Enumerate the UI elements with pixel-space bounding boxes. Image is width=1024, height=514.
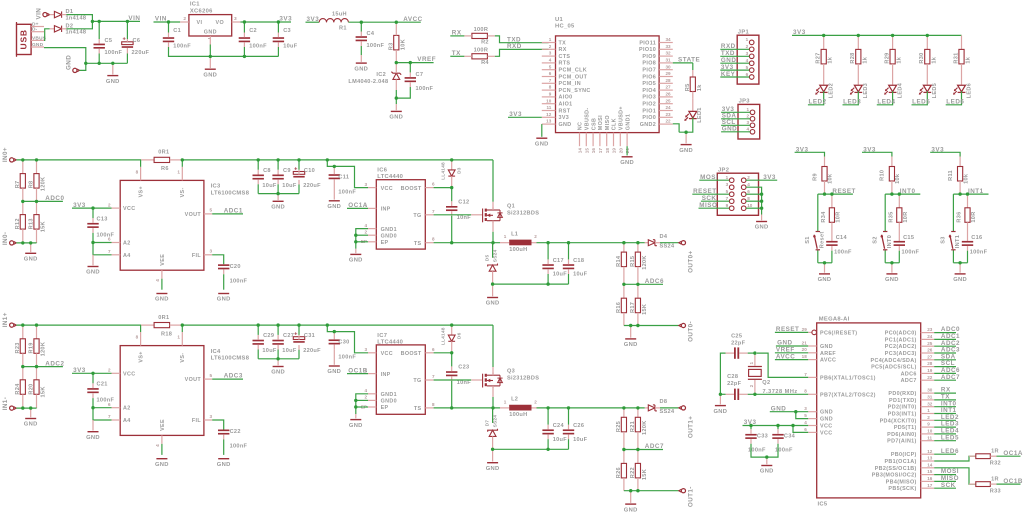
svg-text:PC5(ADC5/SCL): PC5(ADC5/SCL) [871,365,917,371]
IC3 pin 2 VCC [112,207,121,209]
wire cap top [568,408,570,425]
gnd stub [492,449,494,461]
svg-text:IN1-: IN1- [2,397,9,411]
junction [546,406,549,409]
gnd stub [630,491,632,503]
svg-text:1R: 1R [991,448,999,454]
svg-text:2: 2 [364,395,367,400]
svg-text:10uF: 10uF [573,272,588,278]
svg-text:GND: GND [820,344,833,350]
wire JP2 gnd10 [746,207,762,209]
wire VCC4 [743,425,809,427]
svg-text:10uF: 10uF [282,183,297,189]
svg-text:VCC: VCC [123,206,135,212]
resistor R28 [856,35,861,64]
wire sw top [817,194,819,231]
junction [491,406,494,409]
drain stub [492,202,494,210]
IC5 pin 11 PD7(AIN1) [921,440,935,442]
svg-text:1k: 1k [931,56,937,63]
wire ADC out [212,213,243,215]
svg-text:8: 8 [432,237,435,242]
svg-text:8: 8 [432,402,435,407]
svg-text:7: 7 [432,374,435,379]
svg-text:C18: C18 [573,258,584,264]
svg-text:GND: GND [271,205,285,211]
ground IC4 VEE [155,459,169,468]
svg-text:PD7(AIN1): PD7(AIN1) [887,439,917,445]
wire VCC to cap [92,208,94,218]
wire gnd node [818,262,832,264]
junction [822,34,825,37]
svg-text:PC1(ADC1): PC1(ADC1) [885,337,917,343]
junction [622,448,625,451]
svg-text:13: 13 [927,456,933,461]
svg-text:6: 6 [108,237,111,242]
svg-text:11: 11 [546,105,551,110]
wire SCL [934,366,956,368]
wire C25 to xtal [748,352,755,354]
wire RXD [495,49,549,56]
svg-text:6: 6 [549,71,552,76]
gnd stub [492,284,494,296]
U1 pin 34 PIO11 [659,42,673,44]
wire JP2 MOSI [699,179,729,181]
svg-text:IC5: IC5 [818,501,828,507]
JP2 pin 9 [729,206,734,211]
IC7 pin 4 GND1 [368,393,376,395]
svg-text:12: 12 [927,449,933,454]
svg-text:12: 12 [546,112,552,117]
svg-text:0R1: 0R1 [158,315,169,321]
svg-text:R23: R23 [15,342,21,353]
wire LED2 [808,91,824,104]
JP3 pin 4 [750,130,755,135]
svg-text:EP: EP [381,405,389,411]
IC5 pin 7 PB6(XTAL1/TOSC1) [808,376,817,378]
svg-text:9: 9 [726,203,729,208]
svg-text:D7: D7 [485,420,491,427]
svg-text:20: 20 [618,148,623,154]
junction [35,200,38,203]
wire source [492,397,494,408]
svg-text:C26: C26 [573,423,584,429]
svg-text:R27: R27 [816,52,822,63]
wire IC1 gnd rail [169,47,279,56]
U1 pin 10 AIO1 [542,103,556,105]
JP2 pin 3 [729,185,734,190]
svg-text:1: 1 [504,234,507,239]
svg-text:GND: GND [722,126,738,133]
resistor R3 [394,22,399,62]
wire U1 gnd21 [626,146,628,155]
svg-text:IN1+: IN1+ [2,312,9,327]
wire STATE to R5 [692,63,694,70]
junction [297,158,300,161]
svg-text:S3: S3 [941,236,947,243]
IC3 pin 3 FIL [204,254,212,256]
junction [760,207,763,210]
wire LED4 [877,91,893,104]
wire VS+ [140,160,142,167]
resistor R12 [20,201,25,243]
crystal Q2 7.3728MHz [748,353,762,394]
IC7 pin 3 VCC [368,352,376,354]
junction [636,489,639,492]
wire out- rail [624,490,679,492]
svg-text:C14: C14 [836,235,848,241]
svg-text:GND: GND [86,270,100,276]
LED LED4 [884,64,896,95]
svg-text:100nF: 100nF [970,250,988,256]
junction [567,406,570,409]
IC6 pin 1 INP [368,207,376,209]
svg-text:R24: R24 [15,383,21,395]
svg-text:1n4148: 1n4148 [66,15,87,21]
svg-text:GND: GND [559,122,572,128]
svg-text:10k: 10k [963,173,969,184]
wire TX [450,55,464,57]
USB pin D+ [31,26,44,28]
wire cap bot [298,350,300,359]
svg-text:VCC: VCC [123,371,135,377]
wire GND3 [770,411,808,413]
svg-text:PC0(ADC0): PC0(ADC0) [885,331,917,337]
svg-text:32: 32 [666,51,672,56]
U1 pin 16 CSB [592,133,594,147]
capacitor C13 [87,218,98,233]
svg-text:OUT1+: OUT1+ [688,416,695,438]
junction [276,192,279,195]
svg-text:JP1: JP1 [738,29,750,35]
svg-text:IN0-: IN0- [2,232,9,246]
IC4 pin 3 FIL [204,419,212,421]
svg-text:Si2312BDS: Si2312BDS [507,376,539,382]
junction [753,393,756,396]
wire VREF IC5 [775,352,808,354]
svg-text:PIO11: PIO11 [639,40,656,46]
JP1 pin 3 [749,54,754,59]
IC5 pin 14 PB2(SS/OC1B) [921,467,935,469]
junction [791,424,794,427]
svg-text:LED6: LED6 [941,448,959,455]
wire ADC7 [934,379,956,381]
wire SW node [434,242,500,244]
resistor R32 1R [969,454,997,459]
svg-text:GND: GND [486,301,500,307]
svg-text:C22: C22 [230,429,241,435]
svg-text:LED3: LED3 [843,98,861,105]
junction [21,241,24,244]
junction [276,158,279,161]
gnd stub [360,55,362,62]
gate stub [471,379,482,381]
wire VCC to cap [92,373,94,383]
svg-text:15K: 15K [642,469,648,480]
svg-text:R2: R2 [481,39,489,45]
wire ADC2 [934,345,956,347]
gnd stub [30,408,32,417]
svg-text:1: 1 [177,169,180,174]
wire cap bot [257,350,259,359]
U1 pin 24 PIO1 [659,110,673,112]
svg-text:C27: C27 [283,333,294,339]
svg-text:C24: C24 [553,423,565,429]
gnd stub [333,349,335,365]
junction [257,323,260,326]
svg-text:2: 2 [534,234,537,239]
svg-text:A2: A2 [123,241,131,247]
junction [753,351,756,354]
junction [333,330,336,333]
resistor R36 [965,194,970,241]
U1 pin 28 PIO5 [659,82,673,84]
wire VS- [181,160,183,167]
svg-text:PIO10: PIO10 [639,47,656,53]
svg-text:GND: GND [349,258,363,264]
U1 pin 18 MISO [606,133,608,147]
wire cap to sw [451,381,453,408]
IC4 pin 2 VCC [112,372,121,374]
wire RX [934,392,956,394]
wire LED3 [843,91,859,104]
svg-text:4: 4 [549,58,552,63]
wire cap bot [568,439,570,449]
pin IN1- [10,406,14,410]
svg-text:100nF: 100nF [230,278,248,284]
wire ep [356,406,368,408]
svg-text:9: 9 [927,422,930,427]
junction [29,406,32,409]
IC6 pin 3 VCC [368,187,376,189]
svg-text:C33: C33 [757,433,768,439]
svg-text:VBUSD+: VBUSD+ [619,106,625,130]
svg-text:GND: GND [271,370,285,376]
svg-text:GND: GND [624,342,638,348]
svg-text:IC3: IC3 [211,184,221,190]
capacitor C4 [356,32,367,47]
wire cap bot [298,185,300,194]
resistor R27 [821,35,826,64]
svg-text:PCM_CLK: PCM_CLK [559,68,588,74]
svg-text:IN0+: IN0+ [2,147,9,162]
svg-text:LED5: LED5 [941,434,959,441]
capacitor C34 [772,429,783,444]
svg-text:7: 7 [726,196,729,201]
svg-text:C3: C3 [283,28,291,34]
svg-text:VOUT: VOUT [185,377,202,383]
svg-text:100nF: 100nF [416,86,434,92]
junction [958,192,961,195]
svg-text:VEE: VEE [160,419,166,431]
gnd stub [630,326,632,338]
JP3 pin 3 [750,123,755,128]
svg-text:D8: D8 [660,399,668,405]
svg-text:AREF: AREF [820,351,836,357]
svg-text:R19: R19 [29,342,35,353]
junction [277,20,280,23]
svg-text:3V3: 3V3 [721,64,734,71]
svg-text:5: 5 [746,65,749,70]
svg-text:GND: GND [349,423,363,429]
svg-text:JP2: JP2 [718,168,729,174]
IC4 pin 1 VS- [181,332,183,346]
svg-text:32: 32 [927,401,933,406]
svg-text:R7: R7 [15,181,21,189]
svg-text:R33: R33 [990,489,1001,495]
wire JP1 TXD [720,55,749,57]
wire drain [492,325,494,367]
junction [450,323,453,326]
wire cap gnd rail [258,358,299,360]
svg-text:C30: C30 [338,340,349,346]
wire VEE gnd [161,279,163,290]
svg-text:BOOST: BOOST [401,351,422,357]
svg-text:19: 19 [612,148,617,154]
wire diode cathodes [66,15,92,29]
svg-text:R3: R3 [388,42,394,50]
wire to out pin [660,242,679,244]
svg-text:GND1: GND1 [381,392,397,398]
svg-text:SS24: SS24 [493,250,499,263]
svg-text:4: 4 [155,444,160,447]
pin OUT0+ [681,241,685,245]
wire 3V3 to C2 [243,22,245,33]
svg-text:Q1: Q1 [507,204,515,210]
junction [857,34,860,37]
U1 pin 11 RST [542,110,556,112]
JP2 pin 1 [729,178,734,183]
svg-text:0R1: 0R1 [158,150,169,156]
diode D7 SS24 [488,408,498,449]
wire sw top [952,194,954,231]
junction [636,324,639,327]
wire AVCC rail [348,21,420,23]
svg-text:LL4148: LL4148 [441,162,447,180]
wire C4 gnd [360,46,362,55]
junction [567,241,570,244]
svg-text:10uF: 10uF [262,183,277,189]
junction [891,34,894,37]
wire C33 top [750,426,752,430]
junction [21,323,24,326]
wire A2 [93,407,112,409]
inductor L1 100uH [500,240,537,245]
svg-text:10R: 10R [836,211,842,222]
wire JP2 gnd4 [746,187,762,214]
svg-text:21: 21 [625,148,630,154]
JP3 pin 1 [750,110,755,115]
wire gnd node [885,262,899,264]
wire adc node [624,283,663,285]
svg-text:LED4: LED4 [877,98,895,105]
svg-text:GND: GND [217,462,231,468]
resistor R5 [690,70,695,99]
gnd stub [891,263,893,273]
svg-text:220uF: 220uF [303,183,321,189]
capacitor C21 [87,383,98,398]
wire cap bot [257,184,259,193]
svg-text:PB7(XTAL2/TOSC2): PB7(XTAL2/TOSC2) [820,392,876,398]
svg-text:1k: 1k [697,84,703,91]
svg-text:20: 20 [802,347,808,352]
svg-text:3: 3 [364,182,367,187]
IC5 pin 3 GND [808,411,817,413]
svg-text:SS24: SS24 [660,409,675,415]
svg-text:10: 10 [747,203,753,208]
svg-text:LED5: LED5 [932,83,938,99]
svg-text:VCC: VCC [381,351,393,357]
svg-text:4: 4 [746,58,749,63]
wire VEE gnd [161,444,163,455]
resistor R9 [822,157,827,195]
svg-text:C21: C21 [97,382,108,388]
svg-text:10: 10 [546,98,552,103]
U1 pin 20 VBUSD+ [619,133,621,147]
svg-text:ADC7: ADC7 [645,443,664,450]
svg-text:XC6206: XC6206 [190,8,213,14]
resistor R31 [959,35,964,64]
op-amp IC4 LT6100CMS8 [120,346,204,436]
junction [776,424,779,427]
svg-text:100nF: 100nF [338,355,356,361]
svg-text:IC7: IC7 [377,333,387,339]
microcontroller IC5 MEGA8-AI [817,323,921,498]
wire C2 gnd [243,47,245,56]
svg-text:26: 26 [927,348,933,353]
svg-text:INT1: INT1 [955,235,961,248]
svg-text:LTC4440: LTC4440 [377,339,403,345]
svg-text:PD1(TXD): PD1(TXD) [889,398,917,404]
svg-text:16: 16 [591,148,596,154]
junction [91,20,94,23]
wire JP2 gnd6 [746,193,762,195]
wire JP2 MISO [699,207,730,209]
svg-text:C8: C8 [263,168,271,174]
wire OC1A [347,207,368,209]
U1 pin 8 PCN_SYNC [542,89,556,91]
wire adc node [624,449,663,451]
svg-text:R13: R13 [29,218,35,229]
svg-text:VI: VI [197,20,203,26]
svg-text:PB0(ICP): PB0(ICP) [891,452,917,458]
svg-text:C23: C23 [458,365,469,371]
svg-text:R17: R17 [630,302,636,313]
junction [629,489,632,492]
svg-text:1k: 1k [897,56,903,63]
ground [106,76,120,85]
wire ADC0 [934,332,956,334]
svg-text:4: 4 [804,420,807,425]
svg-text:220uF: 220uF [132,50,150,56]
ground C13 [86,267,100,276]
IC5 pin 21 GND [808,345,817,347]
svg-text:C20: C20 [230,264,241,270]
svg-text:GND1: GND1 [381,227,397,233]
wire IN+ rail to fet [182,324,493,326]
wire AVCC to C4 [360,22,362,31]
junction [181,158,184,161]
wire VCC branch [327,325,368,353]
svg-text:S2: S2 [872,236,878,243]
wire TG [434,214,472,216]
IC5 pin 10 PD6(AIN0) [921,433,935,435]
svg-text:OUT0+: OUT0+ [688,250,695,272]
svg-text:100nF: 100nF [105,50,123,56]
junction [830,192,833,195]
svg-text:3: 3 [746,120,749,125]
gnd stub [277,194,279,201]
